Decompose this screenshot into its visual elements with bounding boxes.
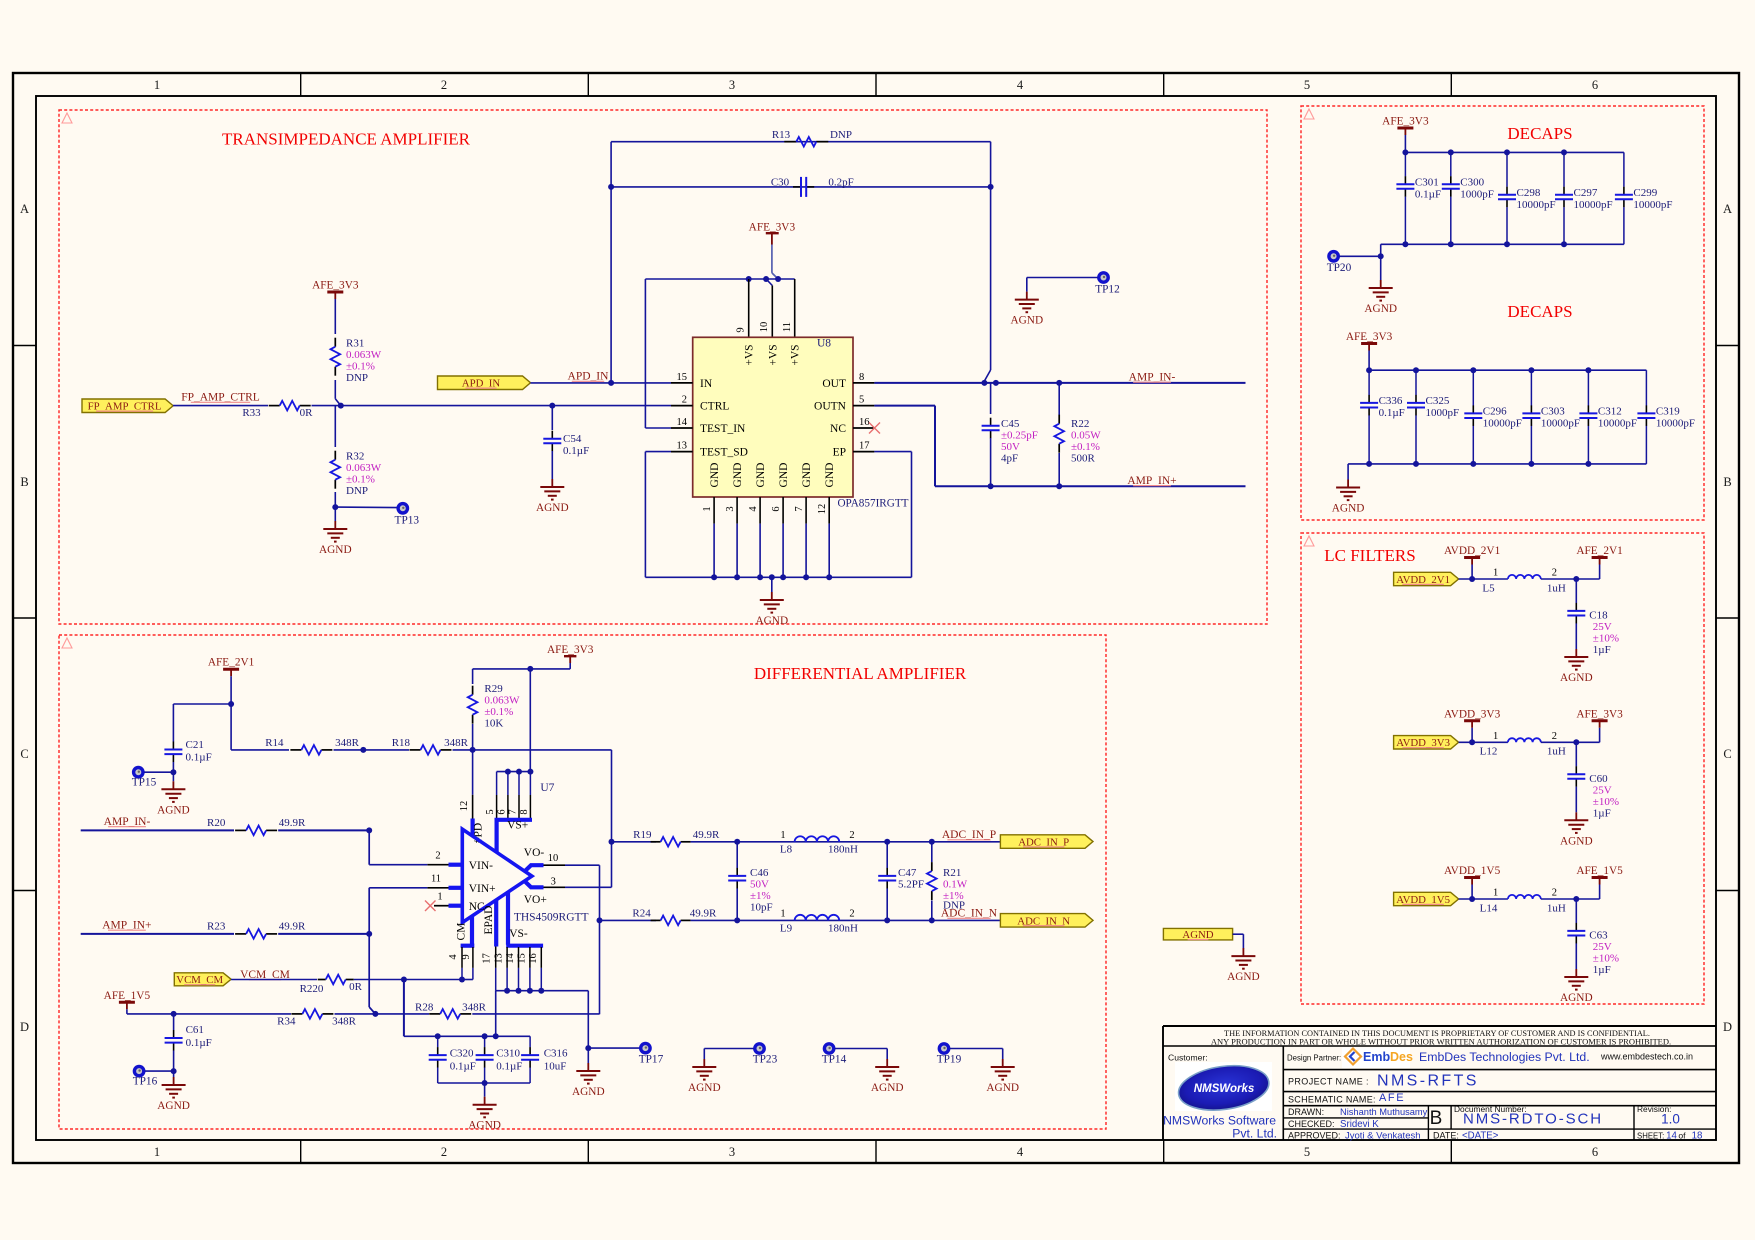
svg-text:DNP: DNP — [346, 372, 368, 384]
svg-text:10000pF: 10000pF — [1633, 199, 1672, 211]
svg-text:C299: C299 — [1633, 187, 1657, 199]
svg-text:TP16: TP16 — [133, 1076, 158, 1088]
svg-text:1: 1 — [1493, 888, 1498, 899]
svg-text:Design Partner:: Design Partner: — [1287, 1054, 1341, 1063]
svg-text:AFE_3V3: AFE_3V3 — [547, 644, 594, 656]
svg-text:4: 4 — [748, 506, 759, 512]
svg-text:AFE_3V3: AFE_3V3 — [312, 280, 359, 292]
svg-text:50V: 50V — [750, 879, 769, 891]
svg-text:15: 15 — [516, 953, 527, 964]
svg-text:GND: GND — [824, 463, 836, 488]
svg-text:THS4509RGTT: THS4509RGTT — [514, 912, 589, 924]
svg-text:R29: R29 — [484, 683, 503, 695]
svg-text:R20: R20 — [207, 817, 226, 829]
svg-text:OPA857IRGTT: OPA857IRGTT — [837, 498, 908, 510]
svg-text:1000pF: 1000pF — [1460, 189, 1494, 201]
svg-text:C316: C316 — [544, 1048, 568, 1060]
svg-text:CM: CM — [456, 923, 468, 941]
svg-text:PROJECT NAME :: PROJECT NAME : — [1288, 1077, 1369, 1087]
svg-text:CTRL: CTRL — [700, 401, 729, 413]
svg-text:25V: 25V — [1593, 941, 1612, 953]
svg-text:TP17: TP17 — [639, 1054, 664, 1066]
svg-text:1: 1 — [154, 78, 160, 92]
svg-text:L8: L8 — [780, 844, 793, 856]
svg-text:10pF: 10pF — [750, 902, 773, 914]
svg-text:AVDD_1V5: AVDD_1V5 — [1444, 865, 1501, 877]
svg-text:AGND: AGND — [1560, 672, 1593, 684]
svg-text:14: 14 — [677, 417, 688, 428]
svg-text:Jyoti & Venkatesh: Jyoti & Venkatesh — [1345, 1130, 1421, 1141]
svg-text:C63: C63 — [1589, 930, 1608, 942]
svg-text:B: B — [1723, 475, 1731, 489]
svg-text:0.1µF: 0.1µF — [186, 752, 212, 764]
svg-text:C296: C296 — [1483, 406, 1507, 418]
svg-text:R220: R220 — [300, 983, 324, 995]
svg-text:1: 1 — [780, 830, 785, 841]
svg-text:VS-: VS- — [509, 928, 528, 940]
svg-text:±0.25pF: ±0.25pF — [1001, 430, 1038, 442]
svg-text:1µF: 1µF — [1593, 644, 1611, 656]
svg-text:VO-: VO- — [524, 847, 545, 859]
svg-text:AGND: AGND — [755, 615, 788, 627]
svg-text:AGND: AGND — [157, 1100, 190, 1112]
svg-text:C21: C21 — [186, 739, 204, 751]
svg-text:AVDD_3V3: AVDD_3V3 — [1444, 708, 1501, 720]
svg-text:C298: C298 — [1517, 187, 1541, 199]
svg-text:49.9R: 49.9R — [693, 829, 720, 841]
svg-text:AFE: AFE — [1379, 1092, 1405, 1104]
svg-text:CHECKED:: CHECKED: — [1288, 1119, 1335, 1129]
svg-text:0.2pF: 0.2pF — [828, 177, 853, 189]
svg-text:DRAWN:: DRAWN: — [1288, 1107, 1324, 1117]
svg-text:DNP: DNP — [830, 129, 852, 141]
svg-text:0.1W: 0.1W — [943, 879, 968, 891]
svg-text:1: 1 — [702, 506, 713, 511]
svg-text:+VS: +VS — [744, 344, 756, 365]
svg-text:C60: C60 — [1589, 773, 1608, 785]
svg-text:AVDD_2V1: AVDD_2V1 — [1444, 545, 1500, 557]
svg-text:LC FILTERS: LC FILTERS — [1324, 546, 1415, 565]
svg-text:B: B — [1430, 1108, 1443, 1129]
svg-text:L14: L14 — [1480, 902, 1498, 914]
svg-text:AGND: AGND — [1227, 971, 1260, 983]
svg-text:U7: U7 — [540, 782, 554, 794]
svg-text:10000pF: 10000pF — [1483, 418, 1522, 430]
svg-text:2: 2 — [441, 1145, 447, 1159]
svg-text:1µF: 1µF — [1593, 807, 1611, 819]
svg-text:0.063W: 0.063W — [484, 695, 520, 707]
svg-text:C301: C301 — [1415, 176, 1439, 188]
svg-text:NMSWorks Software: NMSWorks Software — [1163, 1114, 1276, 1128]
svg-text:0.1µF: 0.1µF — [186, 1037, 212, 1049]
svg-text:10: 10 — [759, 322, 770, 333]
svg-text:<DATE>: <DATE> — [1462, 1130, 1499, 1141]
svg-text:3: 3 — [729, 1145, 735, 1159]
svg-text:1: 1 — [154, 1145, 160, 1159]
svg-text:2: 2 — [1552, 568, 1557, 579]
svg-text:5.2PF: 5.2PF — [898, 879, 924, 891]
svg-text:10: 10 — [548, 853, 559, 864]
svg-text:L9: L9 — [780, 922, 793, 934]
svg-text:2: 2 — [435, 850, 440, 861]
svg-text:DECAPS: DECAPS — [1507, 124, 1572, 143]
svg-text:348R: 348R — [444, 737, 469, 749]
svg-text:AGND: AGND — [1010, 315, 1043, 327]
svg-text:DNP: DNP — [346, 485, 368, 497]
svg-text:13: 13 — [494, 953, 505, 964]
svg-text:0R: 0R — [349, 981, 363, 993]
svg-text:1: 1 — [437, 892, 442, 903]
svg-text:348R: 348R — [462, 1002, 487, 1014]
svg-text:C312: C312 — [1598, 406, 1622, 418]
svg-text:IN: IN — [700, 378, 713, 390]
svg-text:AGND: AGND — [572, 1086, 605, 1098]
svg-text:1uH: 1uH — [1547, 902, 1566, 914]
svg-text:12: 12 — [817, 504, 828, 515]
svg-text:A: A — [1723, 202, 1732, 216]
svg-text:AFE_3V3: AFE_3V3 — [1576, 708, 1623, 720]
svg-text:R18: R18 — [392, 737, 411, 749]
svg-text:GND: GND — [755, 463, 767, 488]
svg-text:3: 3 — [729, 78, 735, 92]
svg-text:49.9R: 49.9R — [279, 921, 306, 933]
svg-text:OUTN: OUTN — [814, 401, 847, 413]
svg-text:+VS: +VS — [790, 344, 802, 365]
svg-text:5: 5 — [1304, 78, 1310, 92]
svg-text:NMSWorks: NMSWorks — [1194, 1083, 1255, 1095]
svg-text:TP23: TP23 — [753, 1054, 778, 1066]
svg-text:Nishanth Muthusamy: Nishanth Muthusamy — [1340, 1107, 1428, 1117]
svg-text:TEST_SD: TEST_SD — [700, 447, 748, 459]
svg-text:R24: R24 — [632, 908, 651, 920]
svg-text:1000pF: 1000pF — [1426, 407, 1460, 419]
svg-text:10000pF: 10000pF — [1517, 199, 1556, 211]
svg-text:TP12: TP12 — [1095, 284, 1120, 296]
svg-text:AGND: AGND — [157, 804, 190, 816]
svg-text:R19: R19 — [633, 829, 652, 841]
svg-text:VO+: VO+ — [524, 894, 547, 906]
svg-text:TRANSIMPEDANCE AMPLIFIER: TRANSIMPEDANCE AMPLIFIER — [222, 130, 471, 149]
svg-text:2: 2 — [441, 78, 447, 92]
svg-text:±10%: ±10% — [1593, 633, 1619, 645]
svg-text:C303: C303 — [1541, 406, 1565, 418]
svg-text:AFE_1V5: AFE_1V5 — [104, 990, 151, 1002]
svg-text:6: 6 — [497, 809, 508, 814]
svg-text:13: 13 — [677, 441, 688, 452]
svg-text:0.1µF: 0.1µF — [563, 445, 589, 457]
svg-text:L12: L12 — [1480, 746, 1498, 758]
svg-text:AGND: AGND — [536, 502, 569, 514]
svg-text:0.05W: 0.05W — [1071, 430, 1101, 442]
svg-text:DNP: DNP — [943, 900, 965, 912]
svg-text:16: 16 — [859, 417, 870, 428]
svg-text:R13: R13 — [772, 129, 791, 141]
svg-text:2: 2 — [1552, 888, 1557, 899]
svg-text:±0.1%: ±0.1% — [346, 474, 375, 486]
svg-text:C61: C61 — [186, 1024, 204, 1036]
svg-text:TP15: TP15 — [132, 777, 157, 789]
svg-text:SHEET:: SHEET: — [1637, 1131, 1664, 1140]
svg-text:C310: C310 — [496, 1048, 520, 1060]
svg-text:±0.1%: ±0.1% — [484, 706, 513, 718]
svg-text:10uF: 10uF — [544, 1061, 567, 1073]
svg-text:1.0: 1.0 — [1661, 1112, 1680, 1127]
svg-text:3: 3 — [725, 506, 736, 511]
svg-text:0.1µF: 0.1µF — [1379, 407, 1405, 419]
svg-text:1uH: 1uH — [1547, 746, 1566, 758]
svg-text:10000pF: 10000pF — [1656, 418, 1695, 430]
svg-text:R28: R28 — [415, 1002, 434, 1014]
svg-text:10K: 10K — [484, 718, 503, 730]
svg-text:AGND: AGND — [1332, 503, 1365, 515]
svg-text:12: 12 — [459, 801, 470, 812]
svg-text:NMS-RDTO-SCH: NMS-RDTO-SCH — [1463, 1111, 1603, 1128]
svg-text:TP19: TP19 — [937, 1054, 962, 1066]
svg-text:OUT: OUT — [822, 378, 846, 390]
svg-text:18: 18 — [1692, 1130, 1703, 1141]
svg-text:C54: C54 — [563, 433, 582, 445]
svg-text:DIFFERENTIAL AMPLIFIER: DIFFERENTIAL AMPLIFIER — [754, 664, 967, 683]
svg-text:3: 3 — [551, 876, 556, 887]
svg-text:C336: C336 — [1379, 395, 1403, 407]
svg-text:Des: Des — [1390, 1050, 1413, 1064]
svg-text:10000pF: 10000pF — [1598, 418, 1637, 430]
svg-text:VIN+: VIN+ — [469, 883, 496, 895]
svg-text:+VS: +VS — [767, 344, 779, 365]
svg-text:R14: R14 — [265, 737, 284, 749]
svg-text:VIN-: VIN- — [469, 860, 493, 872]
svg-text:DATE:: DATE: — [1433, 1130, 1459, 1140]
svg-text:AFE_2V1: AFE_2V1 — [1576, 545, 1622, 557]
svg-text:R23: R23 — [207, 921, 226, 933]
svg-text:5: 5 — [485, 809, 496, 814]
svg-text:EPAD: EPAD — [483, 906, 495, 935]
svg-text:GND: GND — [709, 463, 721, 488]
svg-text:4: 4 — [1017, 78, 1024, 92]
svg-text:D: D — [1723, 1020, 1732, 1034]
svg-text:6: 6 — [1592, 78, 1598, 92]
svg-text:C47: C47 — [898, 867, 917, 879]
svg-text:17: 17 — [859, 441, 870, 452]
svg-text:1: 1 — [1493, 568, 1498, 579]
svg-text:NC: NC — [830, 423, 846, 435]
svg-text:0.1µF: 0.1µF — [1415, 189, 1441, 201]
svg-text:www.embdestech.co.in: www.embdestech.co.in — [1600, 1052, 1693, 1062]
svg-text:10000pF: 10000pF — [1541, 418, 1580, 430]
svg-text:AGND: AGND — [1364, 303, 1397, 315]
svg-text:180nH: 180nH — [828, 922, 858, 934]
svg-text:GND: GND — [732, 463, 744, 488]
svg-text:4: 4 — [448, 954, 459, 960]
svg-text:AFE_3V3: AFE_3V3 — [1346, 331, 1393, 343]
svg-text:1µF: 1µF — [1593, 964, 1611, 976]
svg-text:DECAPS: DECAPS — [1507, 302, 1572, 321]
svg-text:C18: C18 — [1589, 610, 1608, 622]
svg-text:17: 17 — [482, 953, 493, 964]
svg-text:±0.1%: ±0.1% — [1071, 441, 1100, 453]
svg-text:5: 5 — [859, 395, 864, 406]
svg-text:AGND: AGND — [468, 1120, 501, 1132]
svg-text:TP14: TP14 — [822, 1054, 847, 1066]
svg-text:VS+: VS+ — [507, 819, 528, 831]
svg-text:50V: 50V — [1001, 441, 1020, 453]
svg-text:GND: GND — [801, 463, 813, 488]
svg-text:B: B — [20, 475, 28, 489]
svg-text:AFE_1V5: AFE_1V5 — [1576, 865, 1623, 877]
svg-text:9: 9 — [736, 327, 747, 332]
svg-text:APPROVED:: APPROVED: — [1288, 1130, 1341, 1140]
svg-text:of: of — [1678, 1130, 1686, 1140]
svg-text:4: 4 — [1017, 1145, 1024, 1159]
svg-text:49.9R: 49.9R — [690, 908, 717, 920]
svg-text:49.9R: 49.9R — [279, 817, 306, 829]
svg-text:11: 11 — [431, 874, 441, 885]
svg-text:R32: R32 — [346, 451, 364, 463]
svg-text:7: 7 — [794, 506, 805, 511]
svg-text:Customer:: Customer: — [1168, 1053, 1208, 1063]
svg-text:C320: C320 — [450, 1048, 474, 1060]
svg-text:AFE_2V1: AFE_2V1 — [208, 657, 254, 669]
svg-text:R34: R34 — [277, 1016, 296, 1028]
svg-text:14: 14 — [505, 953, 516, 964]
svg-text:6: 6 — [771, 506, 782, 511]
svg-text:ANY PRODUCTION IN PART OR WHOL: ANY PRODUCTION IN PART OR WHOLE WITHOUT … — [1211, 1037, 1671, 1047]
svg-text:2: 2 — [682, 395, 687, 406]
svg-text:R33: R33 — [242, 407, 261, 419]
svg-text:C30: C30 — [771, 177, 790, 189]
svg-text:9: 9 — [461, 954, 472, 959]
svg-text:C: C — [20, 747, 28, 761]
svg-text:EmbDes Technologies Pvt. Ltd.: EmbDes Technologies Pvt. Ltd. — [1419, 1050, 1590, 1064]
svg-text:Pvt. Ltd.: Pvt. Ltd. — [1232, 1127, 1277, 1141]
svg-text:D: D — [20, 1020, 29, 1034]
svg-text:GND: GND — [778, 463, 790, 488]
svg-text:C300: C300 — [1460, 176, 1484, 188]
svg-text:16: 16 — [528, 953, 539, 964]
svg-text:TP20: TP20 — [1327, 262, 1352, 274]
svg-text:AGND: AGND — [319, 544, 352, 556]
svg-text:C297: C297 — [1574, 187, 1598, 199]
svg-text:25V: 25V — [1593, 784, 1612, 796]
svg-text:AGND: AGND — [1560, 992, 1593, 1004]
svg-text:A: A — [20, 202, 29, 216]
svg-text:R21: R21 — [943, 867, 961, 879]
svg-text:348R: 348R — [332, 1016, 357, 1028]
svg-text:14: 14 — [1666, 1130, 1677, 1141]
svg-text:0.063W: 0.063W — [346, 349, 382, 361]
svg-text:8: 8 — [859, 372, 864, 383]
svg-text:348R: 348R — [335, 737, 360, 749]
svg-text:R22: R22 — [1071, 418, 1089, 430]
svg-text:±0.1%: ±0.1% — [346, 361, 375, 373]
svg-text:C45: C45 — [1001, 418, 1020, 430]
svg-text:180nH: 180nH — [828, 844, 858, 856]
svg-text:L5: L5 — [1482, 582, 1495, 594]
svg-text:0.1µF: 0.1µF — [496, 1061, 522, 1073]
svg-text:C: C — [1723, 747, 1731, 761]
svg-text:25V: 25V — [1593, 621, 1612, 633]
svg-text:1: 1 — [1493, 731, 1498, 742]
svg-text:NMS-RFTS: NMS-RFTS — [1377, 1073, 1479, 1090]
svg-text:0.063W: 0.063W — [346, 462, 382, 474]
svg-text:C325: C325 — [1426, 395, 1450, 407]
svg-text:4pF: 4pF — [1001, 453, 1018, 465]
svg-text:SCHEMATIC NAME:: SCHEMATIC NAME: — [1288, 1095, 1376, 1105]
svg-text:0R: 0R — [300, 407, 314, 419]
svg-text:±1%: ±1% — [750, 890, 771, 902]
svg-text:0.1µF: 0.1µF — [450, 1061, 476, 1073]
svg-text:Emb: Emb — [1363, 1050, 1390, 1064]
svg-text:AGND: AGND — [688, 1082, 721, 1094]
svg-text:C46: C46 — [750, 867, 769, 879]
svg-text:TEST_IN: TEST_IN — [700, 423, 746, 435]
svg-text:±10%: ±10% — [1593, 796, 1619, 808]
svg-text:8: 8 — [519, 809, 530, 814]
svg-text:TP13: TP13 — [395, 514, 420, 526]
svg-text:6: 6 — [1592, 1145, 1598, 1159]
svg-text:AGND: AGND — [871, 1082, 904, 1094]
svg-text:10000pF: 10000pF — [1574, 199, 1613, 211]
svg-text:AGND: AGND — [1560, 835, 1593, 847]
svg-text:C319: C319 — [1656, 406, 1680, 418]
svg-text:2: 2 — [849, 830, 854, 841]
svg-text:±10%: ±10% — [1593, 953, 1619, 965]
svg-text:5: 5 — [1304, 1145, 1310, 1159]
svg-text:AFE_3V3: AFE_3V3 — [1382, 116, 1429, 128]
svg-text:AFE_3V3: AFE_3V3 — [749, 221, 796, 233]
svg-text:1: 1 — [780, 909, 785, 920]
svg-text:2: 2 — [1552, 731, 1557, 742]
svg-text:500R: 500R — [1071, 453, 1096, 465]
svg-text:11: 11 — [782, 322, 793, 332]
svg-text:AGND: AGND — [986, 1082, 1019, 1094]
svg-text:Sridevi K: Sridevi K — [1340, 1119, 1379, 1130]
svg-text:2: 2 — [849, 909, 854, 920]
svg-text:15: 15 — [677, 372, 688, 383]
svg-text:R31: R31 — [346, 338, 364, 350]
svg-text:1uH: 1uH — [1547, 582, 1566, 594]
svg-text:EP: EP — [833, 447, 846, 459]
svg-text:U8: U8 — [817, 338, 831, 350]
svg-text:7: 7 — [508, 809, 519, 814]
